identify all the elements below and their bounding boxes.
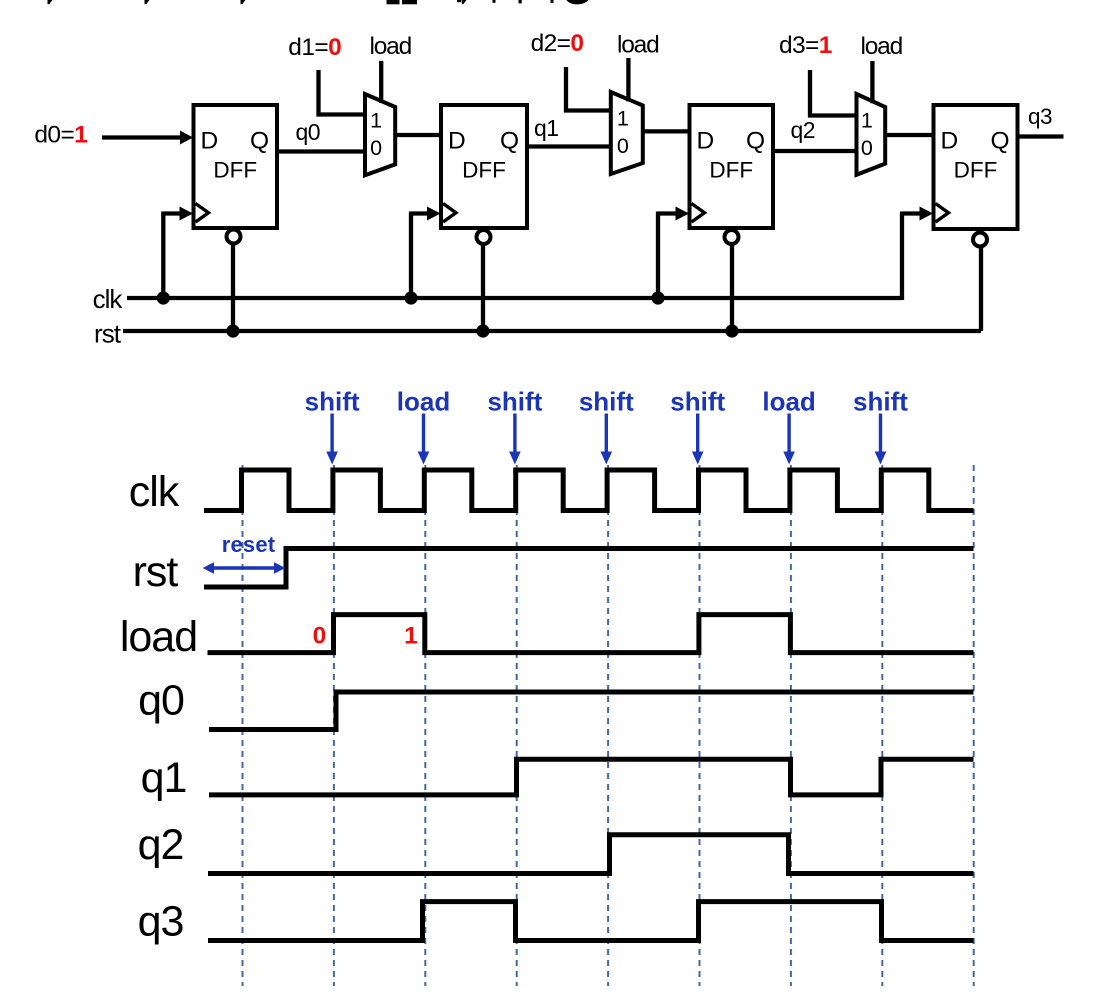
svg-text:0: 0 <box>861 136 873 160</box>
svg-text:clk: clk <box>93 284 124 314</box>
svg-text:q3: q3 <box>1028 104 1052 129</box>
svg-text:q1: q1 <box>141 754 187 802</box>
svg-text:q0: q0 <box>296 119 321 145</box>
svg-text:q1: q1 <box>534 115 559 141</box>
svg-text:DFF: DFF <box>213 157 257 182</box>
svg-text:D: D <box>448 127 466 154</box>
svg-text:q0: q0 <box>138 677 184 725</box>
svg-text:reset: reset <box>222 532 276 557</box>
svg-text:Q: Q <box>746 128 765 155</box>
svg-text:shift: shift <box>670 387 725 417</box>
svg-text:shift: shift <box>853 387 908 417</box>
svg-text:q2: q2 <box>791 117 816 143</box>
svg-text:d0=1: d0=1 <box>34 121 87 148</box>
svg-text:d3=1: d3=1 <box>779 32 832 59</box>
svg-text:q2: q2 <box>138 821 184 869</box>
svg-text:D: D <box>941 127 959 154</box>
svg-text:Q: Q <box>250 128 269 155</box>
svg-text:d1=0: d1=0 <box>288 34 341 61</box>
svg-text:q3: q3 <box>138 898 184 946</box>
svg-text:shift: shift <box>305 387 360 417</box>
svg-text:load: load <box>861 33 903 60</box>
svg-text:DFF: DFF <box>709 157 753 182</box>
svg-text:DFF: DFF <box>954 157 998 182</box>
svg-text:load: load <box>617 32 659 59</box>
svg-text:DFF: DFF <box>462 157 506 182</box>
svg-text:shift: shift <box>579 387 634 417</box>
svg-text:0: 0 <box>617 134 629 158</box>
svg-text:Q: Q <box>990 128 1009 155</box>
svg-text:load: load <box>762 387 815 417</box>
svg-text:Q: Q <box>500 128 519 155</box>
svg-text:rst: rst <box>94 319 122 349</box>
svg-text:rst: rst <box>133 548 179 596</box>
svg-text:0: 0 <box>313 623 327 650</box>
svg-text:D: D <box>697 127 715 154</box>
svg-text:1: 1 <box>404 623 418 650</box>
svg-text:load: load <box>120 613 197 661</box>
svg-text:clk: clk <box>129 468 180 516</box>
svg-text:1: 1 <box>861 109 873 133</box>
svg-text:shift: shift <box>487 387 542 417</box>
svg-text:1: 1 <box>370 109 382 133</box>
svg-text:D: D <box>201 127 219 154</box>
svg-text:1: 1 <box>617 107 629 131</box>
svg-text:d2=0: d2=0 <box>531 30 584 57</box>
svg-text:load: load <box>370 33 412 60</box>
svg-text:0: 0 <box>370 136 382 160</box>
svg-text:load: load <box>397 387 450 417</box>
